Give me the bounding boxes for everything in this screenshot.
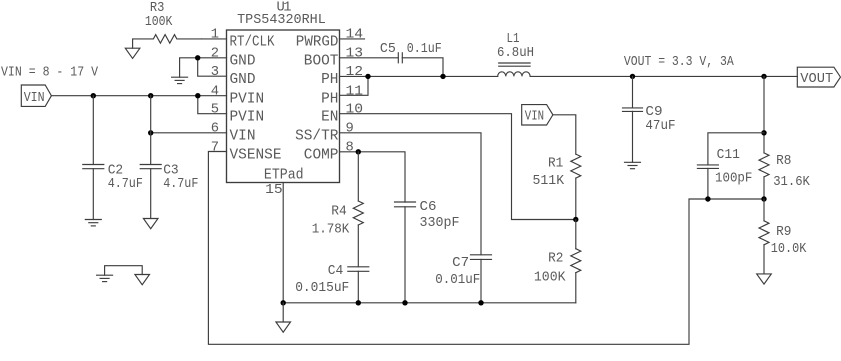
svg-text:PWRGD: PWRGD: [296, 35, 339, 51]
resistor R4: [312, 149, 364, 267]
capacitor C9: [623, 74, 676, 163]
resistor R9: [759, 199, 807, 274]
pin 15 ETPad stub: [265, 183, 283, 303]
pin 8 COMP: [304, 140, 405, 202]
svg-text:8: 8: [346, 140, 354, 155]
node VIN (input port flag): [21, 85, 51, 106]
svg-text:RT/CLK: RT/CLK: [230, 35, 275, 51]
svg-text:SS/TR: SS/TR: [295, 129, 339, 145]
svg-text:4: 4: [211, 84, 219, 99]
svg-text:C5: C5: [380, 42, 396, 57]
svg-text:2: 2: [211, 47, 219, 62]
svg-text:10.0K: 10.0K: [771, 242, 807, 257]
capacitor C2: [83, 96, 143, 220]
svg-text:1: 1: [211, 28, 219, 43]
svg-text:12: 12: [346, 65, 364, 80]
svg-text:6: 6: [211, 122, 219, 137]
svg-text:VSENSE: VSENSE: [230, 147, 282, 163]
pin 1 RT/CLK: [202, 28, 275, 51]
pin 10 EN: [321, 103, 576, 220]
svg-text:100pF: 100pF: [715, 172, 752, 187]
wire pin6: [151, 132, 227, 134]
pin 4 PVIN: [211, 84, 264, 107]
node pin2 junction: [195, 55, 200, 60]
pin 13 BOOT: [304, 47, 399, 70]
ground (earth, pins 2-3): [172, 77, 188, 83]
pin 7 VSENSE: [211, 140, 282, 163]
resistor R3: [133, 1, 202, 48]
inductor L1: [497, 32, 534, 77]
resistor R2: [534, 220, 581, 303]
svg-text:R3: R3: [150, 1, 165, 16]
svg-text:BOOT: BOOT: [304, 54, 339, 70]
capacitor C11: [697, 130, 766, 199]
svg-text:TPS54320RHL: TPS54320RHL: [237, 13, 326, 28]
svg-text:0.01uF: 0.01uF: [435, 273, 480, 288]
svg-text:31.6K: 31.6K: [773, 175, 810, 190]
svg-text:14: 14: [346, 28, 364, 43]
pin 9 SS/TR: [295, 122, 481, 255]
svg-text:VIN: VIN: [24, 91, 45, 106]
wire VSENSE feedback: [208, 152, 764, 345]
wire pin3: [198, 58, 227, 76]
ground (triangle, R9): [757, 274, 772, 284]
svg-text:7: 7: [211, 140, 219, 155]
svg-text:COMP: COMP: [304, 147, 339, 163]
svg-text:VOUT: VOUT: [800, 72, 833, 87]
node VOUT (output port flag): [797, 67, 840, 87]
capacitor C6: [395, 200, 460, 305]
svg-text:47uF: 47uF: [645, 119, 675, 134]
pin 11 PH: [321, 76, 368, 107]
svg-text:EN: EN: [321, 110, 338, 126]
pin 3 GND: [211, 65, 256, 88]
svg-text:511K: 511K: [533, 174, 565, 189]
capacitor C5: [365, 42, 445, 79]
svg-text:VIN: VIN: [525, 110, 544, 125]
svg-text:5: 5: [211, 103, 219, 118]
svg-text:10: 10: [346, 103, 364, 118]
svg-text:GND: GND: [230, 54, 256, 70]
svg-text:4.7uF: 4.7uF: [108, 177, 143, 192]
pin 2 GND: [198, 47, 256, 70]
svg-text:9: 9: [346, 122, 354, 137]
svg-text:0.1uF: 0.1uF: [407, 42, 442, 57]
svg-text:R8: R8: [776, 154, 791, 169]
svg-text:C11: C11: [717, 148, 740, 163]
svg-text:0.015uF: 0.015uF: [295, 281, 349, 296]
svg-text:4.7uF: 4.7uF: [163, 177, 198, 192]
svg-text:100K: 100K: [534, 271, 566, 286]
svg-text:6.8uH: 6.8uH: [497, 46, 534, 61]
svg-text:PVIN: PVIN: [230, 110, 265, 126]
svg-text:GND: GND: [230, 72, 256, 88]
svg-text:VIN = 8 - 17 V: VIN = 8 - 17 V: [1, 66, 99, 81]
svg-text:100K: 100K: [145, 15, 173, 30]
svg-text:PH: PH: [321, 91, 338, 107]
svg-text:11: 11: [346, 84, 364, 99]
pin 12 PH: [321, 65, 498, 88]
svg-text:PVIN: PVIN: [230, 91, 265, 107]
capacitor C4: [295, 264, 369, 305]
ground (earth, C9): [625, 162, 641, 168]
svg-text:R9: R9: [776, 225, 791, 240]
svg-text:C4: C4: [328, 264, 344, 279]
wire GND pins 2-3 tie: [180, 58, 198, 77]
node pin15/AGND rail: [283, 302, 576, 304]
svg-text:L1: L1: [507, 32, 520, 47]
svg-text:R1: R1: [548, 157, 563, 172]
pin 14 PWRGD: [296, 28, 365, 51]
wire VIN flag to R1: [553, 115, 576, 154]
ground (triangle, C3): [143, 219, 158, 229]
svg-text:1.78K: 1.78K: [312, 222, 350, 237]
pin 5 PVIN: [211, 103, 264, 126]
ground net-tie (earth to triangle): [97, 266, 150, 285]
ground (earth, C2): [85, 220, 101, 226]
svg-text:PH: PH: [321, 72, 338, 88]
resistor R1: [533, 154, 581, 219]
node R8/R9 junction row: [705, 196, 710, 201]
svg-text:VIN: VIN: [230, 129, 256, 145]
op-amp U1 (IC body TPS54320RHL): [227, 1, 340, 184]
node junctions on VIN rail: [91, 93, 96, 98]
svg-text:R4: R4: [331, 205, 347, 220]
capacitor C7: [435, 255, 491, 306]
svg-text:C7: C7: [452, 256, 469, 271]
capacitor C3: [140, 96, 198, 219]
svg-text:ETPad: ETPad: [264, 167, 304, 183]
resistor R8: [759, 74, 811, 199]
svg-text:13: 13: [346, 47, 364, 62]
svg-text:15: 15: [265, 183, 283, 198]
wire VOUT rail: [530, 75, 797, 77]
wire VIN rail: [51, 95, 226, 97]
pin 6 VIN: [211, 122, 256, 145]
svg-text:VOUT = 3.3 V, 3A: VOUT = 3.3 V, 3A: [624, 55, 734, 70]
svg-text:R2: R2: [548, 251, 563, 266]
ground (triangle, R3): [125, 48, 140, 58]
svg-text:3: 3: [211, 65, 219, 80]
svg-text:C6: C6: [420, 200, 437, 215]
ground (triangle, ETPad): [276, 303, 291, 332]
node VIN (flag near R1): [522, 105, 553, 125]
wire pin5 drop: [198, 96, 227, 114]
svg-text:330pF: 330pF: [420, 216, 460, 231]
